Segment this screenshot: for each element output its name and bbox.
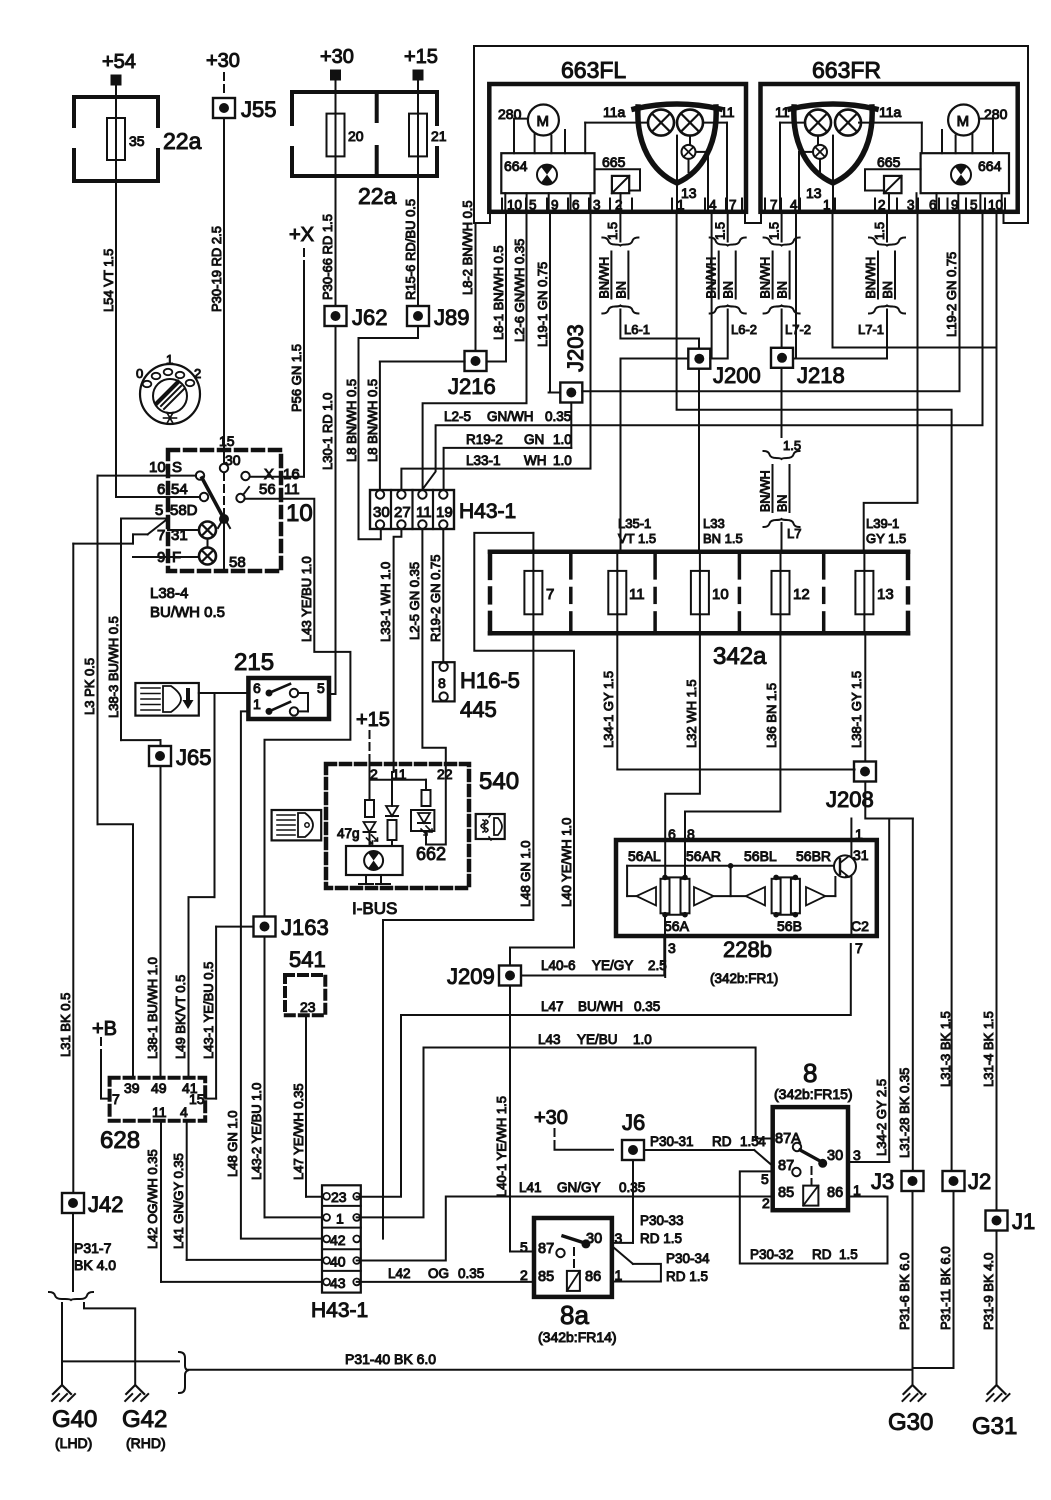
svg-text:BK 4.0: BK 4.0 <box>74 1257 116 1273</box>
svg-text:39: 39 <box>124 1080 140 1096</box>
svg-text:11: 11 <box>720 104 735 120</box>
svg-text:M: M <box>957 113 970 130</box>
svg-text:42: 42 <box>330 1232 346 1248</box>
svg-text:0.35: 0.35 <box>458 1266 484 1281</box>
svg-text:GY 1.5: GY 1.5 <box>866 531 906 546</box>
svg-text:1.5: 1.5 <box>839 1247 858 1262</box>
svg-text:J62: J62 <box>352 305 387 330</box>
svg-text:L38-1 BU/WH 1.0: L38-1 BU/WH 1.0 <box>145 957 160 1059</box>
svg-text:L7-1: L7-1 <box>858 322 884 337</box>
svg-text:R15-6 RD/BU 0.5: R15-6 RD/BU 0.5 <box>403 199 418 300</box>
svg-text:P30-34: P30-34 <box>666 1251 710 1266</box>
svg-text:G40: G40 <box>52 1406 97 1433</box>
svg-text:3: 3 <box>907 198 915 213</box>
svg-text:P31-40 BK 6.0: P31-40 BK 6.0 <box>345 1351 436 1367</box>
svg-text:L31-28 BK 0.35: L31-28 BK 0.35 <box>897 1068 912 1158</box>
svg-text:YE/BU: YE/BU <box>577 1032 618 1047</box>
svg-text:RD 1.5: RD 1.5 <box>666 1269 708 1284</box>
svg-text:L43-2 YE/BU 1.0: L43-2 YE/BU 1.0 <box>249 1083 264 1180</box>
svg-text:2: 2 <box>194 366 201 381</box>
svg-text:215: 215 <box>234 649 274 676</box>
svg-text:1.0: 1.0 <box>553 453 572 468</box>
svg-text:J55: J55 <box>241 97 276 122</box>
svg-text:L7-2: L7-2 <box>785 322 811 337</box>
svg-text:13: 13 <box>806 185 822 201</box>
svg-text:BN 1.5: BN 1.5 <box>703 531 743 546</box>
svg-text:P31-6 BK 6.0: P31-6 BK 6.0 <box>897 1253 912 1330</box>
svg-text:J163: J163 <box>281 915 329 940</box>
svg-text:7: 7 <box>770 198 778 213</box>
svg-text:3: 3 <box>668 940 676 956</box>
svg-text:8: 8 <box>438 675 446 691</box>
svg-text:L38-3 BU/WH 0.5: L38-3 BU/WH 0.5 <box>106 616 121 718</box>
svg-text:445: 445 <box>460 697 497 722</box>
svg-text:GN: GN <box>524 432 544 447</box>
svg-text:L41 GN/GY 0.35: L41 GN/GY 0.35 <box>171 1153 186 1249</box>
svg-text:11a: 11a <box>603 104 626 120</box>
svg-text:BN: BN <box>881 281 895 298</box>
svg-text:11: 11 <box>152 1104 167 1120</box>
svg-text:J209: J209 <box>447 964 495 989</box>
svg-text:5: 5 <box>970 198 978 213</box>
svg-text:L8 BN/WH 0.5: L8 BN/WH 0.5 <box>365 379 380 462</box>
svg-text:L30-1 RD 1.0: L30-1 RD 1.0 <box>320 393 335 470</box>
svg-text:P30-33: P30-33 <box>640 1213 684 1228</box>
svg-text:R19-2: R19-2 <box>466 432 503 447</box>
svg-text:40: 40 <box>330 1254 346 1270</box>
svg-text:I-BUS: I-BUS <box>352 899 397 918</box>
svg-text:L54 VT 1.5: L54 VT 1.5 <box>101 249 116 312</box>
svg-text:7: 7 <box>546 586 554 603</box>
svg-text:H43-1: H43-1 <box>459 500 516 523</box>
svg-text:4: 4 <box>758 1133 766 1149</box>
svg-text:BN/WH: BN/WH <box>597 257 611 299</box>
svg-text:662: 662 <box>416 844 446 864</box>
svg-text:GN/WH: GN/WH <box>487 409 534 424</box>
svg-text:J200: J200 <box>713 363 761 388</box>
svg-text:11: 11 <box>629 586 645 603</box>
svg-text:P31-9 BK 4.0: P31-9 BK 4.0 <box>981 1253 996 1330</box>
svg-text:56BL: 56BL <box>744 848 777 864</box>
svg-text:C2: C2 <box>851 918 869 934</box>
svg-text:1.5: 1.5 <box>740 1134 759 1149</box>
svg-text:1: 1 <box>336 1211 344 1227</box>
svg-text:0: 0 <box>136 366 143 381</box>
svg-text:5: 5 <box>761 1171 769 1187</box>
svg-text:9: 9 <box>551 198 559 213</box>
svg-text:BU/WH: BU/WH <box>578 999 623 1014</box>
svg-text:6: 6 <box>668 826 676 842</box>
svg-text:15: 15 <box>189 1091 205 1107</box>
svg-text:RD: RD <box>812 1247 832 1262</box>
svg-text:23: 23 <box>300 999 316 1015</box>
svg-text:L19-1 GN 0.75: L19-1 GN 0.75 <box>535 262 550 347</box>
svg-text:35: 35 <box>129 133 145 149</box>
svg-text:4: 4 <box>180 1104 188 1120</box>
svg-text:L8 BN/WH 0.5: L8 BN/WH 0.5 <box>344 379 359 462</box>
svg-text:7: 7 <box>729 198 737 213</box>
svg-text:540: 540 <box>479 768 519 795</box>
svg-text:663FL: 663FL <box>561 57 626 83</box>
svg-text:J203: J203 <box>563 324 588 372</box>
svg-text:L43: L43 <box>538 1032 561 1047</box>
svg-text:G42: G42 <box>122 1406 167 1433</box>
svg-text:J89: J89 <box>434 305 469 330</box>
svg-text:8: 8 <box>803 1058 817 1088</box>
svg-text:2: 2 <box>878 198 886 213</box>
svg-text:L19-2 GN 0.75: L19-2 GN 0.75 <box>944 252 959 337</box>
svg-text:L6-2: L6-2 <box>731 322 757 337</box>
svg-text:0.35: 0.35 <box>545 409 571 424</box>
svg-text:L32 WH 1.5: L32 WH 1.5 <box>684 679 699 748</box>
svg-text:3: 3 <box>593 198 601 213</box>
svg-text:1: 1 <box>823 198 831 213</box>
svg-text:J1: J1 <box>1012 1209 1035 1234</box>
svg-text:+30: +30 <box>534 1107 568 1129</box>
svg-text:4: 4 <box>790 198 798 213</box>
svg-text:56BR: 56BR <box>796 848 831 864</box>
svg-text:L34-2 GY 2.5: L34-2 GY 2.5 <box>874 1079 889 1156</box>
svg-text:6: 6 <box>572 198 580 213</box>
svg-text:22a: 22a <box>163 128 202 154</box>
svg-text:342a: 342a <box>713 643 767 670</box>
svg-text:11a: 11a <box>879 104 902 120</box>
svg-text:23: 23 <box>331 1189 347 1205</box>
svg-text:+30: +30 <box>320 46 354 68</box>
svg-text:L3 PK 0.5: L3 PK 0.5 <box>82 658 97 715</box>
svg-text:(342b:FR1): (342b:FR1) <box>710 971 778 986</box>
svg-text:P30-31: P30-31 <box>650 1134 694 1149</box>
svg-text:P31-7: P31-7 <box>74 1240 112 1256</box>
svg-text:2.5: 2.5 <box>648 958 667 973</box>
svg-text:7: 7 <box>157 527 165 544</box>
svg-text:L31 BK 0.5: L31 BK 0.5 <box>58 993 73 1057</box>
svg-text:10: 10 <box>712 586 729 603</box>
svg-text:J218: J218 <box>797 363 845 388</box>
svg-text:L8-1 BN/WH 0.5: L8-1 BN/WH 0.5 <box>491 245 506 340</box>
svg-text:P31-11 BK 6.0: P31-11 BK 6.0 <box>938 1246 953 1330</box>
svg-text:1.0: 1.0 <box>633 1032 652 1047</box>
svg-text:L43 YE/BU 1.0: L43 YE/BU 1.0 <box>299 556 314 642</box>
svg-text:+30: +30 <box>206 50 240 72</box>
svg-text:J216: J216 <box>448 374 496 399</box>
svg-text:1.5: 1.5 <box>767 222 782 240</box>
svg-text:20: 20 <box>348 128 364 144</box>
svg-text:L36 BN 1.5: L36 BN 1.5 <box>764 683 779 748</box>
svg-text:3: 3 <box>615 1230 623 1246</box>
svg-text:(RHD): (RHD) <box>126 1435 166 1451</box>
svg-text:BN/WH: BN/WH <box>759 470 773 512</box>
svg-text:1.0: 1.0 <box>553 432 572 447</box>
svg-text:43: 43 <box>330 1275 346 1291</box>
svg-text:BN: BN <box>722 281 736 298</box>
svg-text:6: 6 <box>157 481 165 498</box>
svg-text:BN: BN <box>776 281 790 298</box>
svg-text:H43-1: H43-1 <box>311 1299 368 1322</box>
svg-text:P56 GN 1.5: P56 GN 1.5 <box>289 344 304 412</box>
svg-text:628: 628 <box>100 1127 140 1154</box>
svg-text:664: 664 <box>504 158 528 174</box>
svg-text:5: 5 <box>520 1239 528 1255</box>
svg-text:1.5: 1.5 <box>872 222 887 240</box>
svg-text:L31-4 BK 1.5: L31-4 BK 1.5 <box>981 1011 996 1087</box>
svg-text:54: 54 <box>171 481 188 498</box>
svg-text:J208: J208 <box>826 787 874 812</box>
svg-text:1: 1 <box>166 352 173 367</box>
svg-text:5: 5 <box>155 502 163 519</box>
svg-text:85: 85 <box>778 1185 794 1201</box>
svg-text:RD: RD <box>712 1134 732 1149</box>
svg-text:11: 11 <box>284 481 300 498</box>
svg-text:2: 2 <box>520 1267 528 1283</box>
svg-text:56B: 56B <box>777 918 802 934</box>
svg-text:J3: J3 <box>871 1169 894 1194</box>
svg-text:L48 GN 1.0: L48 GN 1.0 <box>225 1111 240 1178</box>
svg-text:1: 1 <box>855 826 863 842</box>
svg-text:+B: +B <box>92 1018 117 1040</box>
svg-text:L34-1 GY 1.5: L34-1 GY 1.5 <box>601 671 616 748</box>
svg-text:58: 58 <box>229 554 246 571</box>
svg-text:12: 12 <box>793 586 810 603</box>
svg-text:(342b:FR15): (342b:FR15) <box>774 1086 853 1102</box>
svg-text:47g: 47g <box>337 826 360 841</box>
svg-text:L43-1 YE/BU 0.5: L43-1 YE/BU 0.5 <box>201 962 216 1059</box>
svg-text:L40-1 YE/WH 1.5: L40-1 YE/WH 1.5 <box>494 1096 509 1197</box>
svg-text:15: 15 <box>219 433 235 449</box>
svg-text:R19-2 GN 0.75: R19-2 GN 0.75 <box>428 555 443 642</box>
svg-text:11: 11 <box>775 104 790 120</box>
svg-text:L35-1: L35-1 <box>618 516 651 531</box>
svg-text:10: 10 <box>149 459 166 476</box>
svg-text:(342b:FR14): (342b:FR14) <box>538 1329 617 1345</box>
svg-text:30: 30 <box>827 1148 843 1164</box>
svg-text:665: 665 <box>877 154 901 170</box>
svg-text:56AL: 56AL <box>628 848 661 864</box>
svg-text:8: 8 <box>687 826 695 842</box>
svg-text:30: 30 <box>225 452 241 468</box>
svg-text:G30: G30 <box>888 1409 933 1436</box>
svg-text:1.5: 1.5 <box>713 222 728 240</box>
svg-text:4: 4 <box>709 198 717 213</box>
svg-text:L7: L7 <box>787 526 801 541</box>
svg-text:H16-5: H16-5 <box>460 668 520 693</box>
svg-text:J6: J6 <box>622 1110 645 1135</box>
svg-text:21: 21 <box>431 128 447 144</box>
svg-text:19: 19 <box>436 504 453 521</box>
svg-text:665: 665 <box>602 154 626 170</box>
svg-text:BN: BN <box>614 281 628 298</box>
svg-text:11: 11 <box>416 504 432 521</box>
svg-text:5: 5 <box>317 680 325 696</box>
svg-text:228b: 228b <box>723 937 772 962</box>
svg-text:3: 3 <box>853 1147 861 1163</box>
svg-text:G31: G31 <box>972 1413 1017 1440</box>
svg-text:VT 1.5: VT 1.5 <box>618 531 656 546</box>
svg-text:2: 2 <box>762 1195 770 1211</box>
svg-text:1: 1 <box>677 198 685 213</box>
svg-text:+15: +15 <box>404 46 438 68</box>
svg-text:L2-5 GN 0.35: L2-5 GN 0.35 <box>407 562 422 640</box>
svg-text:5: 5 <box>529 198 537 213</box>
svg-text:S: S <box>172 459 182 476</box>
svg-text:L33: L33 <box>703 516 725 531</box>
svg-text:YE/GY: YE/GY <box>592 958 633 973</box>
svg-text:WH: WH <box>524 453 547 468</box>
svg-text:L40 YE/WH 1.0: L40 YE/WH 1.0 <box>559 818 574 907</box>
svg-text:1.5: 1.5 <box>605 222 620 240</box>
svg-text:M: M <box>537 113 550 130</box>
svg-text:BU/WH 0.5: BU/WH 0.5 <box>150 604 225 621</box>
svg-text:L6-1: L6-1 <box>624 322 650 337</box>
svg-text:+15: +15 <box>356 709 390 731</box>
svg-text:BN/WH: BN/WH <box>864 257 878 299</box>
svg-text:J65: J65 <box>176 745 211 770</box>
svg-text:8a: 8a <box>560 1300 589 1330</box>
svg-text:L47 YE/WH 0.35: L47 YE/WH 0.35 <box>291 1083 306 1180</box>
svg-text:L48 GN 1.0: L48 GN 1.0 <box>518 841 533 908</box>
svg-text:541: 541 <box>289 947 326 972</box>
svg-text:663FR: 663FR <box>812 57 881 83</box>
svg-text:7: 7 <box>855 940 863 956</box>
svg-text:L40-6: L40-6 <box>541 958 576 973</box>
svg-text:87: 87 <box>538 1241 554 1257</box>
svg-text:L38-4: L38-4 <box>150 585 188 602</box>
svg-text:L33-1: L33-1 <box>466 453 501 468</box>
svg-text:GN/GY: GN/GY <box>557 1180 601 1195</box>
svg-text:J42: J42 <box>88 1192 123 1217</box>
svg-text:+X: +X <box>289 224 314 246</box>
svg-text:L8-2 BN/WH 0.5: L8-2 BN/WH 0.5 <box>460 200 475 295</box>
svg-text:7: 7 <box>112 1091 120 1107</box>
svg-text:27: 27 <box>394 504 411 521</box>
svg-text:L42 OG/WH 0.35: L42 OG/WH 0.35 <box>145 1149 160 1249</box>
svg-text:L2-6 GN/WH 0.35: L2-6 GN/WH 0.35 <box>512 239 527 342</box>
svg-text:BN: BN <box>776 495 790 512</box>
svg-text:49: 49 <box>151 1080 167 1096</box>
svg-text:L33-1 WH 1.0: L33-1 WH 1.0 <box>378 562 393 642</box>
svg-text:6: 6 <box>253 680 261 696</box>
svg-text:13: 13 <box>877 586 894 603</box>
svg-text:56AR: 56AR <box>686 848 721 864</box>
svg-text:56: 56 <box>259 481 276 498</box>
svg-text:P30-66 RD 1.5: P30-66 RD 1.5 <box>320 214 335 300</box>
svg-text:664: 664 <box>978 158 1002 174</box>
svg-text:22a: 22a <box>358 183 397 209</box>
svg-text:L47: L47 <box>541 999 564 1014</box>
svg-text:10: 10 <box>286 500 313 527</box>
svg-text:+54: +54 <box>102 51 136 73</box>
svg-text:30: 30 <box>373 504 390 521</box>
svg-text:1: 1 <box>253 696 261 712</box>
svg-text:J2: J2 <box>968 1169 991 1194</box>
svg-text:L31-3 BK 1.5: L31-3 BK 1.5 <box>938 1011 953 1087</box>
svg-text:OG: OG <box>428 1266 449 1281</box>
svg-text:L38-1 GY 1.5: L38-1 GY 1.5 <box>849 671 864 748</box>
svg-text:RD 1.5: RD 1.5 <box>640 1231 682 1246</box>
svg-text:BN/WH: BN/WH <box>759 257 773 299</box>
svg-text:(LHD): (LHD) <box>55 1435 92 1451</box>
svg-text:L2-5: L2-5 <box>444 409 471 424</box>
svg-text:86: 86 <box>827 1185 843 1201</box>
svg-text:56A: 56A <box>664 918 690 934</box>
svg-text:P30-32: P30-32 <box>750 1247 794 1262</box>
svg-text:6: 6 <box>929 198 937 213</box>
svg-text:86: 86 <box>585 1269 601 1285</box>
svg-text:L49 BK/VT 0.5: L49 BK/VT 0.5 <box>173 975 188 1059</box>
svg-text:L41: L41 <box>519 1180 542 1195</box>
svg-text:0.35: 0.35 <box>634 999 660 1014</box>
svg-text:10: 10 <box>507 198 522 213</box>
svg-text:L39-1: L39-1 <box>866 516 899 531</box>
svg-text:L42: L42 <box>388 1266 411 1281</box>
svg-text:P30-19 RD 2.5: P30-19 RD 2.5 <box>209 226 224 312</box>
svg-text:85: 85 <box>538 1269 554 1285</box>
svg-text:58D: 58D <box>170 502 198 519</box>
